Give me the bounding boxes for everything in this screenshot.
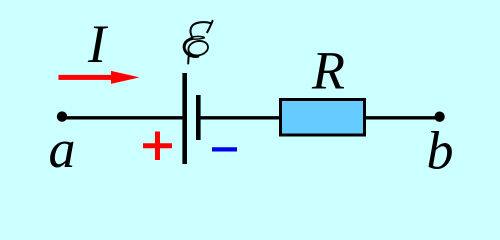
label EMF script E bbox=[184, 21, 212, 64]
node b dot bbox=[434, 112, 444, 122]
wire resistor to node b bbox=[364, 116, 440, 119]
battery EMF source: negative short plate bbox=[196, 95, 201, 140]
svg-text:I: I bbox=[87, 14, 109, 74]
battery EMF source: positive long plate bbox=[182, 73, 187, 164]
plus terminal marking bbox=[143, 132, 172, 161]
node a dot bbox=[57, 111, 67, 121]
svg-text:R: R bbox=[311, 41, 345, 101]
wire battery to resistor bbox=[198, 116, 282, 119]
svg-text:a: a bbox=[49, 119, 76, 179]
wire a to battery positive plate bbox=[62, 116, 184, 119]
svg-text:b: b bbox=[427, 121, 454, 181]
current arrow I bbox=[59, 71, 140, 84]
minus terminal marking bbox=[212, 147, 237, 151]
resistor R body bbox=[281, 100, 365, 136]
